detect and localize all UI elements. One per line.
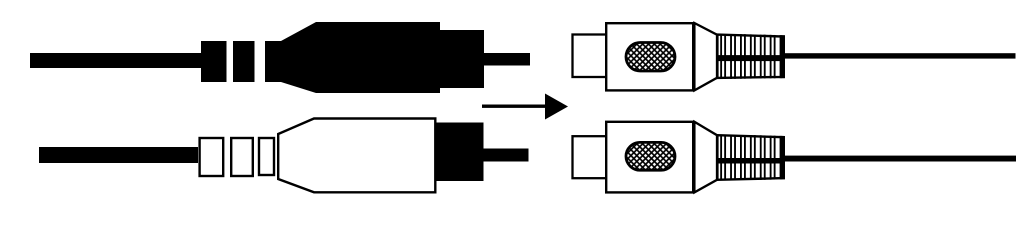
top RCA plug ring 1	[201, 41, 227, 82]
top DIN connector hatched oval	[626, 43, 675, 72]
top DIN connector cable	[784, 53, 1016, 58]
top DIN connector body	[606, 23, 693, 90]
bottom RCA plug barrel	[436, 123, 484, 182]
bottom DIN connector cone	[694, 122, 717, 193]
top DIN connector rib housing	[717, 35, 783, 78]
bottom RCA plug ring 3	[259, 138, 274, 175]
top DIN connector front	[573, 35, 607, 78]
bottom DIN connector front	[573, 136, 607, 178]
bottom DIN connector hatched oval	[626, 142, 675, 170]
top DIN connector cone	[694, 23, 717, 90]
top RCA plug ring 2	[233, 41, 255, 82]
top RCA plug cable	[30, 53, 201, 68]
arrow shaft	[482, 105, 547, 108]
arrow head	[545, 94, 568, 120]
bottom RCA plug cable	[39, 147, 198, 163]
bottom RCA plug ring 2	[231, 138, 253, 176]
top RCA plug ring 3	[265, 41, 281, 82]
bottom DIN connector rib housing	[717, 135, 783, 180]
bottom DIN connector body	[606, 122, 693, 193]
bottom DIN connector cable	[784, 156, 1016, 162]
top RCA plug body with barrel and tip	[281, 22, 530, 93]
bottom RCA plug tip	[484, 149, 529, 162]
bottom RCA plug body	[278, 119, 435, 193]
top DIN connector ribs	[716, 34, 785, 79]
bottom RCA plug ring 1	[200, 138, 224, 176]
bottom DIN connector ribs	[716, 135, 785, 180]
